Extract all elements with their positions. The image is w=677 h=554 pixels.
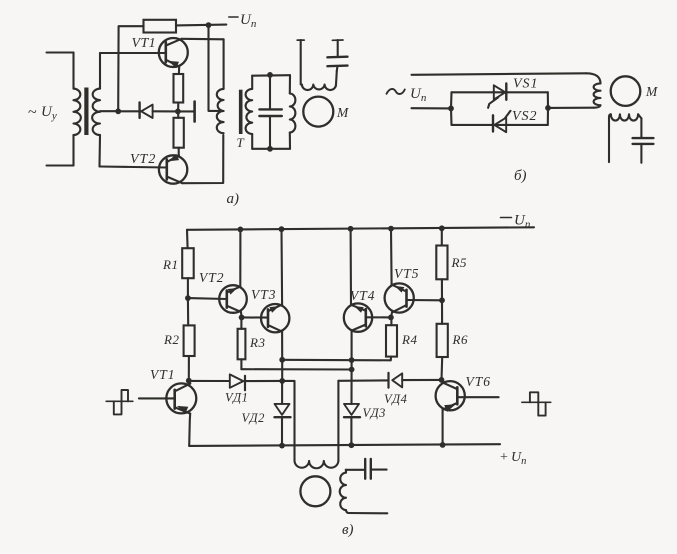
label VT1 (circuit v)	[150, 367, 176, 382]
svg-text:R4: R4	[401, 332, 417, 347]
transistor VT5 (circuit v)	[385, 283, 414, 312]
svg-text:VS2: VS2	[512, 109, 538, 124]
diode VD4	[389, 373, 403, 388]
wire T secondary top line	[252, 74, 290, 77]
label v)	[342, 522, 354, 538]
label VD4	[384, 392, 407, 406]
svg-text:а): а)	[227, 191, 240, 207]
wire VT1 collector to T primary top	[182, 38, 224, 41]
label a)	[227, 191, 240, 207]
wire secondary center tap	[100, 110, 118, 112]
transformer T primary winding	[217, 39, 224, 133]
wire VT5 collector to rail	[390, 229, 393, 285]
svg-text:VT3: VT3	[251, 287, 277, 302]
wire thyristor top branch	[452, 91, 548, 93]
wire R3 to cross line	[240, 359, 242, 369]
node mid junction (diode/cap node)	[175, 109, 181, 115]
wire -Un top rail (circuit v)	[187, 227, 534, 230]
diode VD (center tap to mid junction)	[118, 103, 178, 119]
wire top supply line (circuit b)	[412, 73, 587, 75]
capacitor C (mid junction, plate toward -Un wire)	[178, 102, 195, 122]
label ~Uy control voltage source	[28, 104, 57, 122]
node thyristor block right	[545, 105, 551, 111]
motor M main winding (circuit a)	[290, 75, 296, 149]
wire VT3 emitter down	[281, 332, 283, 360]
capacitor C phase (circuit b)	[633, 114, 654, 163]
svg-text:VT2: VT2	[130, 152, 156, 167]
resistor R emitter VT2 (vertical)	[174, 118, 184, 148]
wire VT3emitter cross line to R4	[282, 357, 391, 361]
thyristor VS2	[493, 111, 511, 132]
wire VT5 emitter down	[391, 312, 392, 317]
label M (circuit a)	[336, 105, 349, 120]
svg-text:R1: R1	[162, 257, 178, 272]
svg-text:R6: R6	[452, 332, 468, 347]
node R5-R6	[439, 297, 445, 303]
motor main winding (circuit b)	[586, 73, 601, 107]
resistor R6	[437, 324, 448, 357]
label VT2 (circuit v)	[199, 270, 225, 285]
svg-text:VД4: VД4	[384, 392, 407, 406]
svg-text:R3: R3	[249, 335, 265, 350]
wire R2 to VT1 collector node	[188, 356, 190, 381]
label VD1	[225, 391, 248, 405]
node A (VT2 base node)	[185, 295, 191, 301]
wire resistor right lead to -Un rail	[176, 24, 226, 27]
svg-text:R2: R2	[163, 332, 179, 347]
wire thyristor block left side	[450, 92, 453, 125]
label M (circuit b)	[645, 84, 658, 99]
node center tap junction	[115, 108, 121, 114]
wire input terminal stub bottom (circuit a)	[47, 164, 74, 166]
label R3	[249, 335, 265, 350]
motor aux winding (circuit b)	[609, 114, 638, 162]
node thyristor block left	[448, 106, 454, 112]
wire VT6 collector up	[440, 380, 443, 383]
svg-text:б): б)	[514, 168, 527, 184]
capacitor C phase (circuit v)	[346, 459, 387, 479]
wire VT3 emitter to VD1 node	[281, 360, 283, 381]
svg-text:~: ~	[28, 104, 37, 121]
label VT1 (circuit a)	[132, 36, 157, 51]
svg-text:VД2: VД2	[242, 411, 265, 425]
wire VT1 emitter lead	[178, 67, 180, 74]
node rail-VT2	[238, 227, 244, 233]
label ~Un supply (circuit b)	[387, 86, 427, 104]
svg-text:VT1: VT1	[132, 36, 157, 51]
node VT3 emitter junction	[279, 357, 285, 363]
transistor VT6 (circuit v)	[436, 381, 465, 412]
node VD1-VD2 junction	[279, 378, 285, 384]
node VT2 emitter junction	[239, 315, 245, 321]
pulse input symbol left	[106, 390, 133, 414]
resistor R5	[436, 246, 447, 280]
wire R1 to node A	[187, 278, 189, 298]
motor M (circuit b)	[611, 76, 641, 106]
wire resistor to mid junction	[177, 103, 179, 112]
svg-text:VД3: VД3	[363, 406, 386, 420]
wire thyristor block right side	[547, 92, 549, 125]
diode VD2	[275, 381, 291, 446]
node rail-VD2	[279, 443, 285, 449]
wire R3 cross line to VT4 emitter	[241, 368, 351, 370]
wire VT3 collector to rail	[280, 229, 283, 304]
node cross-R4 line on VT4 column	[349, 357, 355, 363]
pulse input symbol right	[522, 392, 551, 415]
node rail-R5	[439, 225, 445, 231]
transformer T core	[239, 90, 243, 134]
svg-text:M: M	[336, 105, 349, 120]
label R2	[163, 332, 179, 347]
node cross-VT4emitter	[349, 367, 355, 373]
transistor VT2 (circuit v)	[219, 285, 247, 313]
resistor R2	[184, 325, 195, 356]
label R5	[451, 255, 467, 270]
svg-text:VT6: VT6	[466, 374, 492, 389]
wire node to R4	[390, 317, 392, 325]
wire VT1 collector to VD1	[189, 380, 230, 382]
label b)	[514, 168, 527, 184]
wire resistor to VT2 emitter	[178, 148, 180, 155]
node -Un rail junction	[206, 22, 212, 28]
label VD3	[363, 406, 386, 420]
motor aux winding (circuit a)	[297, 40, 336, 90]
wire bottom supply line (circuit b)	[412, 107, 452, 109]
label VT6 (circuit v)	[466, 374, 492, 389]
resistor R4	[386, 325, 397, 356]
wire R6 to VT6 collector node	[440, 357, 443, 380]
label VT2 (circuit a)	[130, 152, 156, 167]
label VT5 (circuit v)	[394, 266, 420, 281]
wire resistor left lead down to center tap	[118, 26, 143, 111]
svg-text:в): в)	[342, 522, 354, 538]
wire winding lead to VD4	[338, 379, 387, 381]
wire VT6 base lead	[457, 396, 498, 398]
svg-text:VT5: VT5	[394, 266, 420, 281]
node cap bottom junction	[267, 146, 273, 152]
wire junction to R3	[240, 317, 242, 328]
capacitor C3 phase (circuit a)	[327, 40, 347, 85]
node rail-VD3	[349, 442, 355, 448]
transformer T secondary winding	[246, 76, 253, 149]
wire VT2 emitter to VT3 base	[242, 316, 268, 318]
label VS1	[513, 77, 539, 92]
wire VT2 collector to rail	[239, 229, 241, 286]
wire node A to VT2 base	[188, 297, 227, 300]
motor aux winding (circuit v)	[340, 470, 388, 514]
node rail-VT5	[388, 226, 394, 232]
wire VT1 emitter to +Un rail	[189, 414, 190, 446]
node rail-VT4	[348, 226, 354, 232]
resistor R3	[238, 329, 246, 360]
wire VT1 collector up	[189, 381, 190, 384]
wire motor return line (circuit b)	[548, 107, 594, 109]
label R6	[452, 332, 468, 347]
wire node A to R2	[187, 298, 189, 325]
motor main winding (circuit v)	[295, 461, 339, 468]
wire VT5 base to R5R6 node	[407, 299, 443, 301]
wire R5 to node	[441, 279, 443, 300]
label +Un supply	[500, 450, 526, 467]
transformer TR1 core	[84, 88, 88, 136]
node rail-VT3	[279, 226, 285, 232]
wire transformer right lead	[337, 381, 339, 461]
node rail-VT6emitter	[440, 442, 446, 448]
resistor R emitter VT1 (vertical)	[174, 74, 184, 103]
wire secondary top to VT1 base	[100, 52, 166, 54]
wire VT4 emitter down to VD3	[350, 331, 352, 404]
svg-text:VT2: VT2	[199, 270, 225, 285]
wire VD1 to VD2 node	[245, 380, 282, 382]
wire VD4 to VT6 collector	[402, 379, 441, 381]
capacitor C2 (parallel with T secondary)	[259, 75, 281, 149]
transistor VT1 (circuit v)	[166, 383, 196, 413]
svg-text:VД1: VД1	[225, 391, 248, 405]
label VS2	[512, 109, 538, 124]
wire +Un bottom rail	[189, 444, 500, 446]
node cap top junction	[267, 72, 273, 78]
svg-text:VT1: VT1	[150, 367, 176, 382]
svg-text:R5: R5	[451, 255, 467, 270]
motor M (circuit v)	[300, 476, 330, 506]
label -Un supply (circuit v)	[501, 213, 531, 231]
wire VT1 base lead	[139, 397, 175, 399]
wire thyristor bottom branch	[452, 124, 548, 126]
svg-text:VT4: VT4	[350, 288, 376, 303]
wire input terminal stub top (circuit a)	[47, 51, 74, 53]
wire rail to R5	[441, 228, 443, 245]
wire -Un rail down to T primary center tap	[209, 25, 223, 111]
wire VT2 emitter down	[240, 312, 243, 317]
label VT4 (circuit v)	[350, 288, 376, 303]
resistor R bias (horizontal, top of circuit a)	[144, 20, 177, 33]
wire VT4 collector to rail	[350, 229, 352, 305]
node VT6 collector junction	[439, 377, 445, 383]
label T	[237, 135, 245, 150]
transistor VT4 (circuit v)	[344, 303, 372, 331]
wire node to R6	[441, 300, 443, 324]
wire VD2 node to transformer left lead	[282, 381, 294, 461]
resistor R1	[182, 248, 194, 278]
label VD2	[242, 411, 265, 425]
transformer TR1 primary winding	[74, 53, 81, 166]
wire rail to R1	[186, 230, 189, 248]
wire VT6 emitter to rail	[442, 410, 444, 445]
wire secondary bottom to VT2 base	[100, 167, 167, 168]
diode VD3	[344, 404, 360, 445]
node VT1 collector junction	[186, 378, 192, 384]
svg-text:T: T	[237, 135, 245, 150]
label VT3 (circuit v)	[251, 287, 277, 302]
label -Un supply (circuit a)	[229, 12, 257, 30]
motor M (circuit a)	[303, 97, 333, 127]
svg-text:M: M	[645, 84, 658, 99]
wire VT2 collector to T primary bottom	[182, 135, 223, 183]
node VT4base-R4-VT5emitter	[388, 315, 394, 321]
diode VD1	[230, 374, 245, 390]
transistor VT2 (circuit a)	[159, 154, 187, 184]
transistor VT3 (circuit v)	[261, 304, 289, 332]
svg-text:VS1: VS1	[513, 77, 539, 92]
svg-text:+: +	[500, 450, 508, 465]
wire mid junction to resistor	[177, 111, 179, 117]
wire T secondary bottom line	[252, 148, 290, 150]
label R1	[162, 257, 178, 272]
thyristor VS1	[488, 84, 506, 108]
transistor VT1 (circuit a)	[159, 38, 188, 68]
transformer TR1 secondary winding	[92, 53, 100, 167]
wire VT4 base to node	[366, 316, 391, 318]
label R4	[401, 332, 417, 347]
